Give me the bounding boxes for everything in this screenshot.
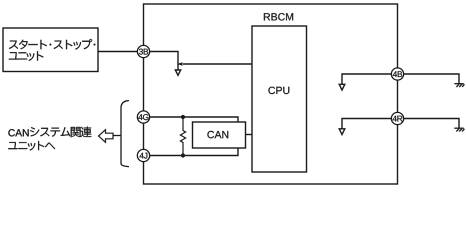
junction dot on 4J wire: [181, 153, 185, 157]
arrowhead pointing left on CPU wire: [177, 62, 183, 65]
label RBCM: [264, 13, 293, 20]
connector 4R: [391, 112, 403, 124]
junction dot on 4G wire: [181, 115, 185, 119]
tick from brace to block arrow: [114, 135, 122, 137]
label: CAN system related units (line 1): [8, 127, 91, 138]
open arrow (ground side) for 4B: [339, 84, 345, 90]
wire: CPU to 3B branch: [183, 63, 252, 65]
connector 4J: [137, 149, 149, 161]
block arrow: to CAN system units: [99, 130, 114, 143]
chassis ground symbol for 4B: [454, 84, 464, 87]
start-stop unit box: [3, 28, 98, 72]
wire: start-stop unit to connector 3B: [98, 51, 138, 53]
connector 4G: [137, 111, 149, 123]
label CPU: [268, 87, 289, 94]
terminating resistor between CAN lines: [180, 117, 185, 156]
connector 4B: [391, 68, 403, 80]
wire: CAN block to CPU: [246, 134, 253, 136]
wire: 4J to CAN block (CAN-L): [150, 148, 239, 156]
wire: 4R left to ground arrow: [342, 119, 391, 129]
connector 3B: [137, 45, 149, 57]
wire: 3B to branch corner: [150, 52, 178, 71]
wire: 4R right to chassis ground: [404, 119, 459, 129]
label CAN: [207, 131, 228, 138]
brace grouping 4G/4J: [121, 101, 129, 167]
open arrow (ground side) for 4R: [339, 129, 345, 135]
label: to units (line 2): [8, 141, 55, 151]
RBCM module outer box: [144, 4, 398, 184]
wire: 4G to CAN block (CAN-H): [150, 117, 239, 122]
CPU block: [252, 26, 307, 172]
wire: 4B right to chassis ground: [404, 74, 459, 84]
wire: 4B left to ground arrow: [342, 74, 391, 84]
label: start-stop unit (Japanese line 2): [9, 51, 44, 61]
open arrow below 3B branch: [175, 70, 180, 75]
label: start-stop unit (Japanese line 1): [9, 39, 95, 50]
CAN transceiver block: [193, 122, 246, 148]
chassis ground symbol for 4R: [454, 128, 464, 131]
